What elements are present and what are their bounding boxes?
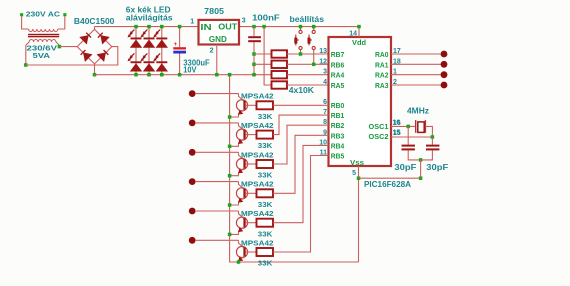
U1 pin 6 (RB0) number [323, 99, 327, 106]
svg-text:RB2: RB2 [331, 121, 345, 130]
transformer TR1 primary winding [29, 29, 58, 32]
wire S2 to pin 12 net [313, 50, 315, 65]
wire LED column 3 [161, 27, 163, 75]
label 33K R7 [258, 171, 273, 180]
wire bridge + output stub [94, 27, 96, 30]
svg-text:GND: GND [209, 35, 227, 44]
svg-text:MPSA42: MPSA42 [241, 209, 274, 218]
svg-text:MPSA42: MPSA42 [241, 92, 274, 101]
junction Q6 emitter / ground bus [237, 260, 241, 264]
transistor Q5 base bar [243, 218, 245, 227]
wire R3 right to PIC pin 3 [287, 74, 329, 76]
wire primary left [22, 16, 29, 29]
svg-text:30pF: 30pF [426, 163, 448, 172]
svg-text:100nF: 100nF [252, 14, 280, 23]
wire LED column 1 [135, 27, 137, 75]
label 7805 [204, 7, 224, 16]
transistor Q4 emitter [230, 197, 245, 205]
resistor R1 10K (network) [272, 50, 288, 57]
junction LED column 3 bottom [160, 73, 164, 77]
U1 pin 7 (RB1) number [323, 109, 327, 116]
junction LED column 2 top [147, 25, 151, 29]
junction S2 / +5V rail [312, 25, 316, 29]
wire C2 top [253, 27, 255, 37]
wire RA2 output [391, 74, 441, 76]
pad Q5 collector connector [189, 208, 196, 215]
wire VCC top rail (bridge to 7805 IN) [95, 26, 199, 28]
U1 pin 9 (RB3) number [323, 129, 327, 136]
junction C1 / ground rail [178, 73, 182, 77]
U1 pin name OSC1 [369, 122, 390, 131]
wire Q3 collector lead [195, 151, 239, 153]
wire Q1 collector lead [195, 93, 239, 95]
svg-text:RB5: RB5 [331, 152, 345, 161]
label MPSA42 Q5 [241, 209, 274, 218]
pad RA0 output connector [441, 51, 448, 58]
U1 pin number 14 [349, 31, 357, 38]
transistor Q4 collector [239, 182, 245, 190]
wire bridge AC left input [59, 46, 77, 48]
junction Q3 emitter / ground bus [228, 174, 232, 178]
wire emitter ground bus [230, 75, 359, 262]
label 6x kek LED alavilagitas [126, 5, 174, 22]
LED D4 (blue) [141, 53, 156, 71]
svg-text:5VA: 5VA [33, 51, 51, 60]
capacitor C1 3300uF 10V (polarized) [173, 42, 186, 53]
LED D2 (blue) [128, 53, 143, 71]
svg-text:3: 3 [323, 69, 327, 76]
junction oscillator ground / Vss net [419, 176, 423, 180]
wire Vss pin 5 down [358, 166, 360, 262]
svg-text:12: 12 [319, 58, 327, 65]
svg-text:OSC2: OSC2 [369, 132, 389, 141]
svg-text:33K: 33K [258, 259, 273, 268]
svg-text:33K: 33K [258, 141, 273, 150]
resistor R7 33K [257, 160, 274, 168]
wire R8 to PIC pin 9 [273, 135, 329, 193]
wire +5V rail (7805 OUT to PIC Vdd) [239, 26, 359, 28]
svg-text:4MHz: 4MHz [407, 107, 429, 116]
junction C3/C4 common [419, 158, 423, 162]
U1 pin 1 (RA2) number [393, 69, 397, 76]
junction S2 / pin 12 net [312, 63, 316, 67]
U1 pin name RB7 [331, 50, 345, 59]
transistor Q1 emitter [230, 109, 245, 117]
wire R7 to PIC pin 8 [273, 125, 329, 164]
label 30pF (C4) [426, 163, 448, 172]
U1 pin name RA4 [331, 71, 345, 80]
wire LED column 2 [148, 27, 150, 75]
junction Vss / oscillator ground [357, 176, 361, 180]
transformer TR1 secondary winding [29, 40, 56, 43]
U1 pin name RA2 [375, 71, 389, 80]
pad Q2 collector connector [189, 120, 196, 127]
label 33K R6 [258, 141, 273, 150]
junction pulldown bus pin13 row [252, 52, 256, 56]
resistor R6 33K [257, 131, 274, 139]
transistor Q5 circle [236, 217, 247, 228]
svg-text:beállítás: beállítás [290, 15, 325, 24]
label 30pF (C3) [394, 163, 416, 172]
svg-text:Vdd: Vdd [352, 38, 366, 47]
wire Q6 collector lead [195, 239, 239, 241]
U1 pin 4 (RA5) number [323, 79, 327, 86]
svg-text:RB7: RB7 [331, 50, 345, 59]
U1 pin name RA3 [375, 81, 389, 90]
svg-text:1: 1 [190, 18, 194, 25]
U1 pin name RB2 [331, 121, 345, 130]
wire Q5 base [246, 222, 257, 224]
junction Q4 emitter / ground bus [228, 203, 232, 207]
U2 pin number 1 [190, 18, 194, 25]
svg-text:230V AC: 230V AC [26, 9, 61, 18]
svg-text:4x10K: 4x10K [289, 86, 314, 95]
wire bridge - output stub [94, 64, 96, 75]
junction C1 / +5V unreg rail [178, 25, 182, 29]
diode B1 bottom-left [81, 50, 93, 62]
wire Q4 collector lead [195, 181, 239, 183]
junction OSC1 / C3 [406, 125, 410, 128]
U1 pin 16 (OSC1) number [393, 120, 401, 127]
U1 pin 3 (RA4) number [323, 69, 327, 76]
diode B1 bottom-right [97, 50, 109, 62]
wire OSC2 pin 15 [391, 136, 432, 138]
svg-text:RB1: RB1 [331, 111, 345, 120]
transformer TR1 core [28, 34, 59, 38]
wire R6 to PIC pin 7 [273, 115, 329, 135]
wire primary right [58, 16, 65, 29]
transistor Q3 base bar [243, 159, 245, 168]
wire C4 top [431, 137, 433, 145]
svg-text:14: 14 [349, 31, 357, 38]
label 33K R8 [258, 200, 273, 209]
wire C3 bottom [408, 150, 420, 160]
wire C1 bottom [179, 54, 181, 75]
junction U2 GND / ground rail [215, 73, 219, 77]
svg-text:MPSA42: MPSA42 [241, 121, 274, 130]
transistor Q6 base bar [243, 247, 245, 256]
U2 pin labels IN OUT GND [200, 22, 237, 44]
U1 pin 17 (RA0) number [393, 48, 401, 55]
wire RA0 output [391, 53, 441, 55]
svg-text:+: + [174, 42, 178, 48]
resistor R3 10K (network) [272, 71, 288, 78]
transistor Q6 emitter [238, 256, 244, 262]
label MPSA42 Q4 [241, 180, 274, 189]
svg-text:OSC1: OSC1 [369, 122, 390, 131]
wire RA1 output [391, 63, 441, 65]
wire C1 top [179, 27, 181, 48]
wire R4 right to PIC pin 4 [287, 84, 329, 86]
junction secondary left / AC rail [24, 63, 28, 67]
svg-text:alávilágítás: alávilágítás [126, 14, 174, 23]
pad Q3 collector connector [189, 149, 196, 156]
transistor Q6 collector [239, 240, 245, 248]
pad RA3 output connector [441, 82, 448, 89]
U1 pin 10 (RB4) number [319, 139, 327, 146]
junction OSC2 / C4 [431, 135, 435, 139]
transistor Q5 collector [239, 211, 245, 219]
wire secondary right end [56, 42, 59, 47]
label 33K R5 [258, 112, 273, 121]
transistor Q2 base bar [243, 130, 245, 139]
svg-text:MPSA42: MPSA42 [241, 150, 274, 159]
U1 pin number 16 [393, 119, 401, 126]
U1 pin name RA1 [375, 60, 389, 69]
label C1 value 3300uF 10V [183, 58, 210, 74]
wire Q2 collector lead [195, 122, 239, 124]
capacitor C4 30pF [426, 145, 439, 151]
transistor Q2 collector [239, 123, 245, 131]
svg-text:RB0: RB0 [331, 101, 345, 110]
capacitor C3 30pF [402, 145, 415, 151]
U1 pin name RB3 [331, 131, 345, 140]
U1 pin name RB4 [331, 141, 345, 150]
svg-text:MPSA42: MPSA42 [241, 238, 274, 247]
svg-text:RA0: RA0 [375, 50, 389, 59]
transistor Q2 emitter [230, 138, 245, 146]
transistor Q3 emitter [230, 168, 245, 176]
wire R1 right to PIC pin 13 [287, 53, 329, 55]
crystal Q1 4MHz [416, 120, 426, 133]
label 230V AC [26, 9, 61, 18]
IC U1 PIC16F628A body [329, 37, 392, 166]
svg-text:16: 16 [393, 119, 401, 126]
junction Q5 emitter / ground bus [228, 233, 232, 237]
wire R5 to PIC pin 6 [273, 104, 329, 106]
wire R9 to PIC pin 10 [273, 145, 329, 222]
svg-text:RA4: RA4 [331, 71, 345, 80]
pad Q4 collector connector [189, 178, 196, 185]
U1 pin number 5 [352, 170, 356, 177]
label 4MHz [407, 107, 429, 116]
terminal X1-2 (230V AC neutral) [63, 13, 66, 16]
label MPSA42 Q3 [241, 150, 274, 159]
junction LED column 1 bottom [134, 73, 138, 77]
junction Q2 emitter / ground bus [228, 145, 232, 149]
wire R10 to PIC pin 11 [273, 156, 329, 253]
junction LED column 2 bottom [147, 73, 151, 77]
U1 pin name RB0 [331, 101, 345, 110]
LED D1 (blue) [128, 30, 143, 48]
svg-text:33K: 33K [258, 229, 273, 238]
transistor Q1 circle [236, 100, 247, 111]
U1 pin 13 (RB7) number [319, 48, 327, 55]
svg-text:13: 13 [319, 48, 327, 55]
wire Q6 base [246, 251, 257, 253]
transistor Q5 emitter [230, 227, 245, 235]
label 33K R10 [258, 259, 273, 268]
wire ground rail [95, 74, 272, 76]
svg-text:7805: 7805 [204, 7, 224, 16]
transistor Q2 circle [236, 129, 247, 140]
label beallitas [290, 15, 325, 24]
wire R2 left [254, 63, 272, 65]
U1 pin name Vdd [352, 38, 366, 47]
svg-text:5: 5 [352, 170, 356, 177]
resistor R2 10K (network) [272, 61, 288, 68]
wire C3 top [407, 126, 409, 144]
resistor R10 33K [257, 248, 274, 256]
junction pulldown bus pin12 row [252, 63, 256, 67]
junction pulldown bus ground rail [252, 73, 256, 77]
svg-text:4: 4 [323, 79, 327, 86]
U2 pin number 2 [210, 48, 214, 55]
svg-text:33K: 33K [258, 200, 273, 209]
wire secondary left end [26, 42, 29, 65]
LED D5 (blue) [153, 30, 168, 48]
wire C2 bottom / pulldown bus [253, 42, 255, 74]
transistor Q1 base bar [243, 101, 245, 110]
resistor R4 10K (network) [272, 81, 288, 88]
U1 pin name RB6 [331, 60, 345, 69]
svg-text:IN: IN [200, 23, 211, 32]
junction bridge minus / ground rail [93, 73, 97, 77]
wire Q5 collector lead [195, 210, 239, 212]
svg-text:3: 3 [242, 18, 246, 25]
svg-text:33K: 33K [258, 112, 273, 121]
label 33K R9 [258, 229, 273, 238]
svg-text:B40C1500: B40C1500 [74, 17, 115, 26]
svg-text:RB4: RB4 [331, 141, 345, 150]
pad Q6 collector connector [189, 237, 196, 244]
label 100nF [252, 14, 280, 23]
transistor Q4 base bar [243, 189, 245, 198]
wire C4 bottom [421, 150, 433, 160]
svg-text:30pF: 30pF [394, 163, 416, 172]
svg-text:RB3: RB3 [331, 131, 345, 140]
regulator U2 7805 body [199, 20, 240, 45]
resistor R9 33K [257, 219, 274, 227]
wire R2 right to PIC pin 12 [287, 63, 329, 65]
label 4x10K [289, 86, 314, 95]
svg-text:15: 15 [393, 129, 401, 136]
transistor Q3 collector [239, 152, 245, 160]
U1 pin number 15 [393, 129, 401, 136]
wire Q3 base [246, 163, 257, 165]
LED D3 (blue) [141, 30, 156, 48]
resistor R8 33K [257, 189, 274, 197]
capacitor C2 100nF [248, 36, 261, 42]
junction LED column 1 top [134, 25, 138, 29]
U1 pin 11 (RB5) number [320, 150, 328, 157]
svg-text:RB6: RB6 [331, 60, 345, 69]
junction 100nF / +5V rail [252, 25, 256, 29]
diode B1 top-right (points to +) [98, 33, 110, 45]
svg-text:RA2: RA2 [375, 71, 389, 80]
svg-text:RA5: RA5 [331, 81, 345, 90]
wire Q1 base [246, 104, 257, 106]
U2 pin number 3 [242, 18, 246, 25]
switch S2 (beallitas) [308, 27, 316, 50]
pad RA2 output connector [441, 71, 448, 78]
label MPSA42 Q2 [241, 121, 274, 130]
wire OSC1 pin 16 [391, 125, 416, 127]
junction Vdd / +5V rail [357, 25, 361, 29]
wire RA3 output [391, 84, 441, 86]
label B40C1500 [74, 17, 115, 26]
U1 pin name OSC2 [369, 132, 389, 141]
LED D6 (blue) [153, 53, 168, 71]
svg-text:10V: 10V [183, 66, 197, 75]
label PIC16F628A [364, 180, 411, 189]
terminal X1-1 (230V AC live) [20, 13, 23, 16]
wire oscillator ground drop [420, 160, 422, 178]
wire Vdd pin 14 [358, 27, 360, 37]
wire Q4 base [246, 192, 257, 194]
U1 pin 18 (RA1) number [393, 58, 401, 65]
wire AC net to bridge [26, 47, 118, 65]
transistor Q3 circle [236, 158, 247, 169]
diode B1 top-left (points to +) [79, 33, 91, 45]
pad Q1 collector connector [189, 90, 196, 97]
label MPSA42 Q1 [241, 92, 274, 101]
svg-text:MPSA42: MPSA42 [241, 180, 274, 189]
svg-text:RA1: RA1 [375, 60, 389, 69]
wire Q2 base [246, 134, 257, 136]
wire R1 left [254, 53, 272, 55]
U1 pin name Vss [350, 158, 364, 167]
junction LED column 3 top [160, 25, 164, 29]
label MPSA42 Q6 [241, 238, 274, 247]
resistor R5 33K [257, 101, 274, 109]
U1 pin name RA5 [331, 81, 345, 90]
svg-text:PIC16F628A: PIC16F628A [364, 180, 411, 189]
U1 pin 2 (RA3) number [393, 79, 397, 86]
junction emitter bus / ground rail [228, 73, 232, 77]
U1 pin 15 (OSC2) number [393, 130, 401, 137]
wire S1 to pin 13 net [300, 50, 302, 54]
pad RA1 output connector [441, 61, 448, 68]
U1 pin name RB5 [331, 152, 345, 161]
wire U2 GND pin 2 [216, 45, 218, 75]
transistor Q1 collector [239, 94, 245, 102]
label 230/6V [27, 43, 59, 52]
junction Q1 emitter / ground bus [228, 115, 232, 119]
switch S1 (beallitas) [294, 27, 302, 50]
svg-text:OUT: OUT [218, 22, 237, 31]
label 5VA [33, 51, 51, 60]
U1 pin 8 (RB2) number [323, 119, 327, 126]
wire crystal right to OSC2 [425, 126, 432, 137]
transistor Q6 circle [236, 246, 247, 257]
svg-text:Vss: Vss [350, 158, 364, 167]
bridge rectifier B1 diamond [77, 29, 112, 64]
U1 pin 12 (RB6) number [319, 58, 327, 65]
transistor Q4 circle [236, 188, 247, 199]
svg-text:2: 2 [210, 48, 214, 55]
U1 pin name RB1 [331, 111, 345, 120]
svg-text:RA3: RA3 [375, 81, 389, 90]
svg-text:33K: 33K [258, 171, 273, 180]
wire Vss to oscillator caps [359, 177, 421, 179]
U1 pin name RA0 [375, 50, 389, 59]
junction MCLR pullup / +5V rail [262, 25, 266, 29]
wire MCLR pullup (rail to R4) [264, 27, 271, 85]
junction secondary right / bridge input [58, 45, 62, 49]
junction S1 / pin 13 net [299, 52, 303, 56]
junction S1 / +5V rail [299, 25, 303, 29]
